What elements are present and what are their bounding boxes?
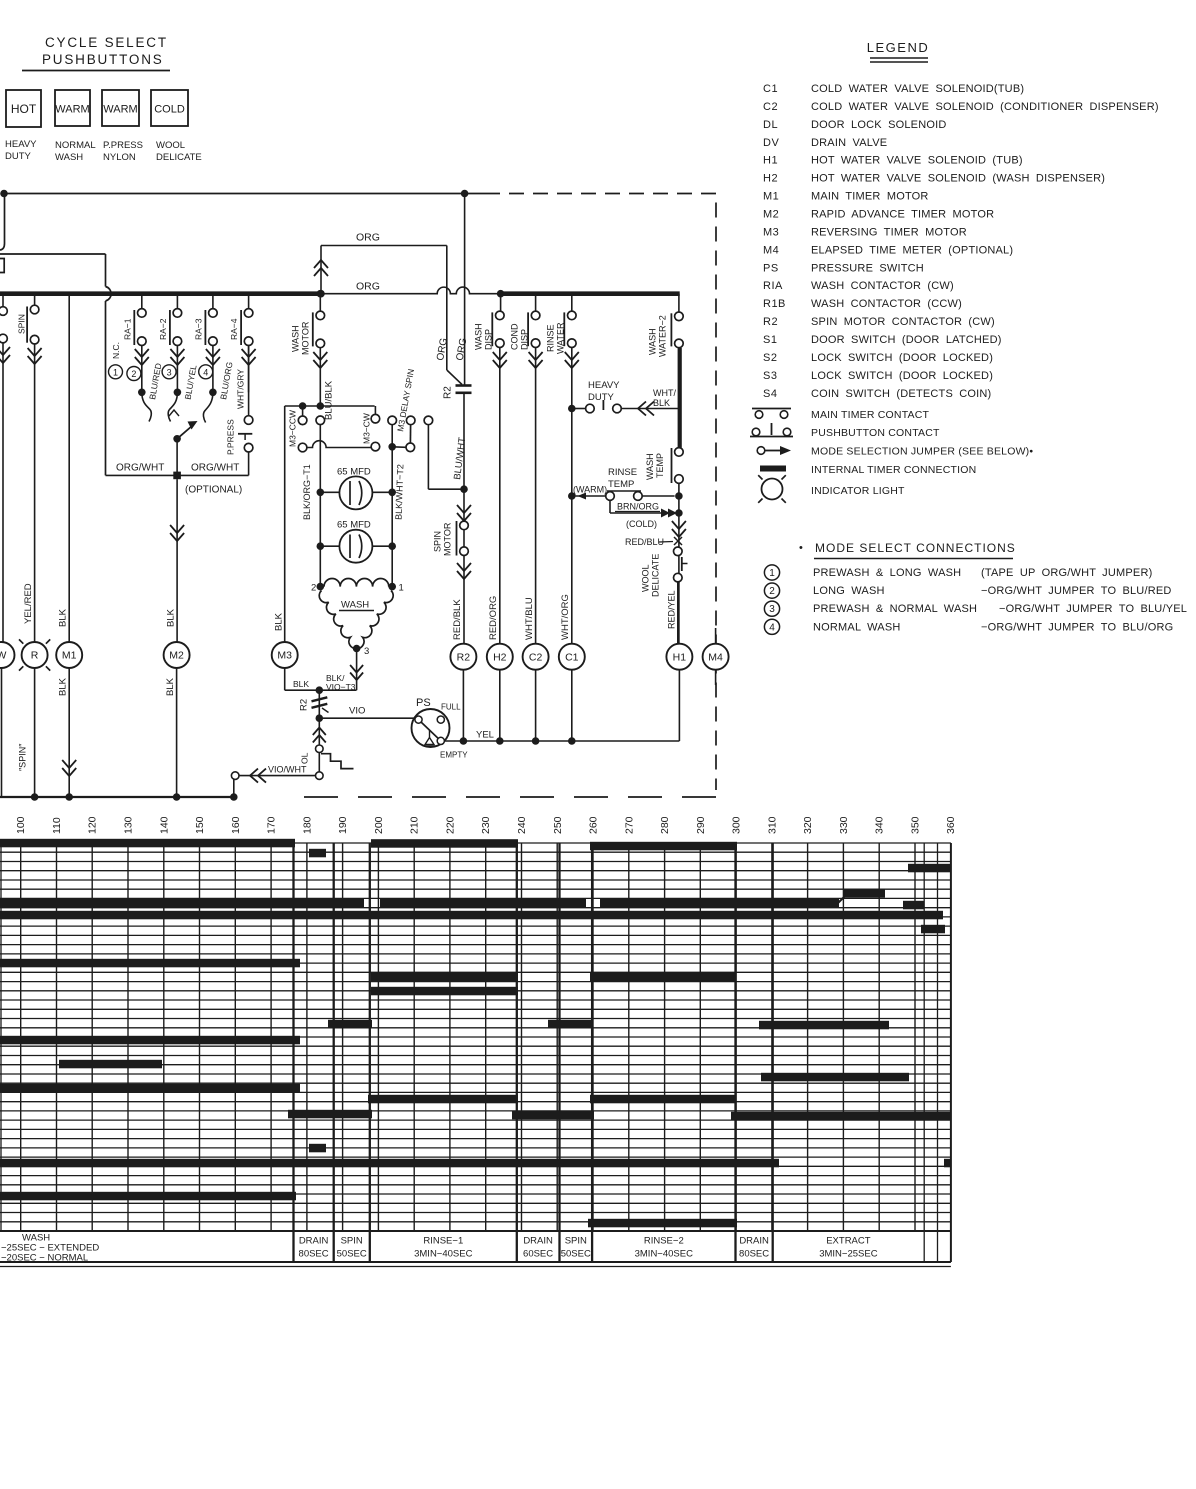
- svg-text:COIN SWITCH (DETECTS COIN): COIN SWITCH (DETECTS COIN): [811, 388, 991, 400]
- svg-text:180: 180: [301, 816, 313, 834]
- svg-text:170: 170: [266, 816, 278, 834]
- svg-text:M2: M2: [169, 650, 184, 662]
- svg-text:WASH: WASH: [648, 328, 658, 355]
- svg-text:WHT/BLU: WHT/BLU: [524, 597, 535, 640]
- svg-text:DUTY: DUTY: [5, 151, 32, 162]
- wire: pushbutton feed to ORG/WHT jumper rail: [0, 253, 106, 255]
- svg-text:DOOR SWITCH (DOOR LATCHED): DOOR SWITCH (DOOR LATCHED): [811, 334, 1002, 346]
- legend symbol: pushbutton contact: [752, 428, 760, 436]
- wire VIO/WHT to bottom rail: [316, 772, 324, 780]
- svg-text:DL: DL: [763, 119, 778, 131]
- svg-text:BLK: BLK: [274, 612, 285, 631]
- contact M3 DELAY SPIN: [388, 416, 397, 425]
- svg-text:330: 330: [838, 816, 850, 834]
- contact M3 delay spin drop wire: [424, 416, 433, 425]
- svg-text:TEMP: TEMP: [608, 479, 634, 490]
- svg-text:YEL: YEL: [476, 730, 494, 741]
- svg-text:3: 3: [769, 604, 775, 615]
- svg-text:130: 130: [123, 816, 135, 834]
- svg-text:60SEC: 60SEC: [523, 1249, 553, 1260]
- svg-text:COLD: COLD: [154, 104, 185, 116]
- svg-text:RA−3: RA−3: [193, 318, 203, 340]
- svg-text:•: •: [799, 542, 803, 554]
- svg-text:R: R: [31, 650, 39, 662]
- svg-text:150: 150: [194, 816, 206, 834]
- svg-text:EMPTY: EMPTY: [440, 751, 468, 760]
- pushbutton HOT (HEAVY DUTY): [6, 90, 41, 127]
- svg-text:WASH CONTACTOR (CW): WASH CONTACTOR (CW): [811, 280, 954, 292]
- svg-text:WASH: WASH: [474, 323, 484, 350]
- svg-text:SPIN: SPIN: [341, 1236, 363, 1247]
- svg-text:WASH: WASH: [341, 600, 369, 611]
- chart section boundary lines: [292, 843, 294, 1262]
- legend symbol: internal timer connection: [760, 466, 786, 472]
- svg-text:DRAIN: DRAIN: [739, 1236, 769, 1247]
- svg-text:4: 4: [203, 367, 208, 377]
- svg-text:RINSE−2: RINSE−2: [644, 1236, 684, 1247]
- wire + contact: wash water-2 / H1 branch: [678, 294, 680, 312]
- svg-text:MOTOR: MOTOR: [443, 522, 453, 556]
- svg-text:M3: M3: [763, 226, 779, 238]
- svg-text:M3−CW: M3−CW: [362, 413, 372, 444]
- svg-text:DELICATE: DELICATE: [651, 554, 661, 597]
- svg-text:−20SEC − NORMAL: −20SEC − NORMAL: [1, 1253, 88, 1264]
- svg-text:WASH: WASH: [645, 453, 655, 480]
- svg-text:350: 350: [910, 816, 922, 834]
- svg-text:VIO/WHT: VIO/WHT: [268, 765, 307, 775]
- svg-text:NORMAL WASH: NORMAL WASH: [813, 621, 901, 633]
- wire + contact: wash dispenser H2 branch: [500, 294, 502, 311]
- solenoid H2: [487, 644, 513, 670]
- svg-text:RED/BLK: RED/BLK: [452, 599, 463, 640]
- contact: wash temp: [675, 448, 684, 457]
- svg-text:320: 320: [802, 816, 814, 834]
- svg-text:H1: H1: [763, 155, 778, 167]
- svg-text:200: 200: [373, 816, 385, 834]
- wire ORG/WHT jumper rail: [106, 474, 249, 476]
- svg-text:BLK: BLK: [58, 677, 69, 696]
- svg-text:NYLON: NYLON: [103, 152, 136, 163]
- svg-text:INTERNAL TIMER CONNECTION: INTERNAL TIMER CONNECTION: [811, 464, 976, 476]
- svg-text:2: 2: [131, 369, 136, 379]
- wire + contact: wash motor branch: [317, 290, 325, 298]
- svg-text:M4: M4: [763, 244, 779, 256]
- contact M3-CW: [374, 406, 376, 414]
- svg-text:290: 290: [695, 816, 707, 834]
- pushbutton contact bracket (cut off at page edge): [0, 259, 4, 273]
- svg-text:P.PRESS: P.PRESS: [226, 419, 236, 455]
- diagonal step connector: [838, 896, 845, 903]
- svg-text:(COLD): (COLD): [626, 519, 657, 529]
- svg-text:HEAVY: HEAVY: [588, 380, 620, 391]
- svg-text:EXTRACT: EXTRACT: [826, 1236, 871, 1247]
- svg-text:100: 100: [15, 816, 27, 834]
- svg-text:M3: M3: [277, 650, 292, 662]
- wire between reversing contacts with hop: [307, 441, 371, 448]
- svg-text:280: 280: [659, 816, 671, 834]
- circled mode numbers: [109, 365, 123, 379]
- svg-text:COLD WATER VALVE SOLENOID (CON: COLD WATER VALVE SOLENOID (CONDITIONER D…: [811, 101, 1159, 113]
- svg-text:300: 300: [731, 816, 743, 834]
- wire: top horizontal supply line: [4, 193, 500, 195]
- svg-text:260: 260: [588, 816, 600, 834]
- svg-text:TEMP: TEMP: [655, 453, 665, 478]
- svg-text:M1: M1: [62, 650, 77, 662]
- wire BLU/WHT: [463, 393, 465, 644]
- dashed timer boundary border: [509, 194, 716, 791]
- svg-text:310: 310: [766, 816, 778, 834]
- contact RA−4: [248, 294, 250, 309]
- svg-text:HOT: HOT: [11, 102, 37, 116]
- svg-text:BRN/ORG: BRN/ORG: [617, 502, 659, 512]
- wash motor winding (WASH): [317, 583, 325, 591]
- svg-text:N.C.: N.C.: [111, 342, 121, 359]
- svg-text:S4: S4: [763, 388, 777, 400]
- svg-text:W: W: [0, 650, 7, 662]
- svg-text:MODE SELECTION JUMPER (SEE BEL: MODE SELECTION JUMPER (SEE BELOW)•: [811, 446, 1033, 458]
- legend symbol: indicator light: [762, 479, 783, 500]
- svg-text:4: 4: [769, 622, 775, 633]
- svg-text:3MIN−40SEC: 3MIN−40SEC: [414, 1249, 472, 1260]
- svg-text:YEL/RED: YEL/RED: [23, 583, 34, 624]
- svg-text:−ORG/WHT JUMPER TO BLU/RED: −ORG/WHT JUMPER TO BLU/RED: [981, 585, 1172, 597]
- svg-text:CYCLE SELECT: CYCLE SELECT: [45, 35, 168, 50]
- svg-text:−ORG/WHT JUMPER TO BLU/ORG: −ORG/WHT JUMPER TO BLU/ORG: [981, 621, 1173, 633]
- contact R2 (lower, capacitor-style bars): [318, 690, 320, 718]
- svg-text:ELAPSED TIME METER (OPTIONAL): ELAPSED TIME METER (OPTIONAL): [811, 244, 1013, 256]
- svg-text:″SPIN″: ″SPIN″: [18, 743, 28, 771]
- chart grid horizontal lines: [0, 842, 951, 844]
- svg-text:120: 120: [87, 816, 99, 834]
- svg-text:R2: R2: [457, 651, 471, 663]
- svg-text:RINSE: RINSE: [608, 467, 637, 478]
- svg-text:BLK: BLK: [165, 677, 176, 696]
- svg-text:MODE SELECT CONNECTIONS: MODE SELECT CONNECTIONS: [815, 541, 1016, 555]
- mode select item 1: [764, 565, 779, 580]
- svg-text:S2: S2: [763, 352, 777, 364]
- svg-text:BLK: BLK: [653, 398, 670, 408]
- svg-text:DISP: DISP: [484, 329, 494, 350]
- solenoid H1: [666, 644, 692, 670]
- contactor coil R2: [450, 644, 476, 670]
- main bus (thick, right): [501, 291, 680, 296]
- svg-text:VIO: VIO: [349, 706, 365, 717]
- wire: W contactor branch (cut at edge): [2, 294, 4, 307]
- contact SPIN + indicator R: [34, 294, 36, 306]
- legend symbol: main timer contact: [752, 408, 791, 410]
- svg-text:WOOL: WOOL: [156, 140, 185, 151]
- svg-text:S3: S3: [763, 370, 777, 382]
- svg-text:C1: C1: [565, 651, 579, 663]
- svg-text:ORG/WHT: ORG/WHT: [191, 463, 239, 474]
- svg-text:BLK: BLK: [166, 608, 177, 627]
- svg-text:M3−CCW: M3−CCW: [288, 410, 298, 447]
- rapid advance motor M2 branch: [176, 479, 178, 642]
- svg-text:WOOL: WOOL: [641, 564, 651, 592]
- svg-text:RAPID ADVANCE TIMER MOTOR: RAPID ADVANCE TIMER MOTOR: [811, 209, 994, 221]
- svg-text:DRAIN VALVE: DRAIN VALVE: [811, 137, 887, 149]
- svg-text:WASH CONTACTOR (CCW): WASH CONTACTOR (CCW): [811, 298, 962, 310]
- jumper BRN/ORG (COLD): [609, 500, 611, 513]
- svg-text:WHT/GRY: WHT/GRY: [236, 369, 246, 409]
- svg-text:(WARM): (WARM): [573, 485, 607, 495]
- svg-text:ORG/WHT: ORG/WHT: [116, 463, 164, 474]
- svg-text:WHT/: WHT/: [653, 388, 676, 398]
- wire YEL return line: [444, 740, 679, 742]
- mode select item 2: [764, 583, 779, 598]
- svg-text:H1: H1: [673, 651, 687, 663]
- svg-text:PREWASH & NORMAL WASH: PREWASH & NORMAL WASH: [813, 603, 977, 615]
- svg-text:PUSHBUTTONS: PUSHBUTTONS: [42, 52, 164, 67]
- svg-text:HOT WATER VALVE SOLENOID (TUB): HOT WATER VALVE SOLENOID (TUB): [811, 155, 1023, 167]
- svg-text:DRAIN: DRAIN: [523, 1236, 553, 1247]
- chart grid vertical lines: [20, 843, 22, 1231]
- svg-text:BLK/WHT−T2: BLK/WHT−T2: [394, 464, 406, 520]
- svg-text:WHT/ORG: WHT/ORG: [560, 594, 571, 640]
- svg-text:80SEC: 80SEC: [299, 1249, 329, 1260]
- svg-text:230: 230: [480, 816, 492, 834]
- svg-text:50SEC: 50SEC: [337, 1249, 367, 1260]
- solenoid C2: [523, 644, 549, 670]
- contact: spin motor (timer contact on R2 coil wire): [457, 505, 471, 521]
- svg-text:COND: COND: [509, 323, 519, 350]
- svg-text:DISP: DISP: [519, 329, 529, 350]
- center wire from common contact down to capacitors: [316, 416, 325, 425]
- svg-text:LEGEND: LEGEND: [867, 40, 929, 55]
- svg-text:220: 220: [444, 816, 456, 834]
- svg-text:R2: R2: [443, 386, 454, 399]
- timer motor M1 branch: [68, 294, 70, 642]
- svg-text:RED/YEL: RED/YEL: [667, 590, 677, 629]
- jumper hook RA-3: [203, 392, 212, 422]
- svg-text:WARM: WARM: [55, 104, 89, 116]
- pushbutton COLD (WOOL DELICATE): [151, 90, 188, 126]
- svg-text:3MIN−40SEC: 3MIN−40SEC: [635, 1249, 693, 1260]
- wire: left edge drop from supply line: [0, 194, 5, 251]
- wire BLK/ORG-T1: [391, 447, 393, 587]
- pushbutton WARM (NORMAL WASH): [55, 90, 90, 126]
- svg-text:WATER−2: WATER−2: [658, 315, 668, 357]
- svg-text:P.PRESS: P.PRESS: [103, 140, 143, 151]
- wash motor reversing network M3-CCW / M3-CW: [285, 405, 375, 407]
- reversing motor M3: [272, 642, 298, 668]
- svg-text:3: 3: [167, 367, 172, 377]
- svg-text:C2: C2: [529, 651, 543, 663]
- jumper hook RA-2: [168, 392, 177, 421]
- svg-text:R2: R2: [763, 316, 778, 328]
- svg-text:(OPTIONAL): (OPTIONAL): [185, 485, 242, 496]
- mode select item 4: [764, 619, 779, 634]
- svg-text:SPIN: SPIN: [565, 1236, 587, 1247]
- svg-text:160: 160: [230, 816, 242, 834]
- svg-text:S1: S1: [763, 334, 777, 346]
- svg-text:65 MFD: 65 MFD: [337, 520, 371, 531]
- svg-text:BLU/BLK: BLU/BLK: [324, 380, 335, 420]
- svg-text:M2: M2: [763, 209, 779, 221]
- svg-text:PUSHBUTTON CONTACT: PUSHBUTTON CONTACT: [811, 427, 940, 439]
- pushbutton contact: WOOL DELICATE: [674, 547, 683, 556]
- svg-text:HEAVY: HEAVY: [5, 139, 37, 150]
- svg-text:M1: M1: [763, 191, 779, 203]
- svg-text:COLD WATER VALVE SOLENOID(TUB): COLD WATER VALVE SOLENOID(TUB): [811, 83, 1024, 95]
- svg-text:210: 210: [409, 816, 421, 834]
- svg-text:80SEC: 80SEC: [739, 1249, 769, 1260]
- pushbutton contact: HEAVY DUTY branch: [568, 405, 576, 413]
- svg-text:DV: DV: [763, 137, 779, 149]
- svg-text:2: 2: [311, 583, 316, 594]
- wire from winding tap 3: [356, 649, 358, 691]
- svg-text:LOCK SWITCH (DOOR LOCKED): LOCK SWITCH (DOOR LOCKED): [811, 370, 993, 382]
- main bus (thick, left): [0, 291, 318, 296]
- svg-text:RIA: RIA: [763, 280, 783, 292]
- wire ORG from top line to R2 contact: [464, 194, 466, 386]
- svg-text:C2: C2: [763, 101, 778, 113]
- svg-text:M4: M4: [708, 651, 723, 663]
- main bus thin middle with hops over ORG wires: [318, 287, 501, 294]
- chart phase label boxes: [0, 1261, 951, 1263]
- svg-text:PS: PS: [416, 697, 431, 709]
- svg-text:LONG WASH: LONG WASH: [813, 585, 885, 597]
- svg-text:R1B: R1B: [763, 298, 786, 310]
- contact RA−1: [141, 294, 143, 309]
- svg-text:110: 110: [51, 817, 63, 834]
- svg-text:DOOR LOCK SOLENOID: DOOR LOCK SOLENOID: [811, 119, 947, 131]
- svg-text:REVERSING TIMER MOTOR: REVERSING TIMER MOTOR: [811, 226, 967, 238]
- contact R2 (spin contactor contact, capacitor-style bars): [447, 370, 462, 385]
- svg-text:PRESSURE SWITCH: PRESSURE SWITCH: [811, 262, 924, 274]
- svg-text:MAIN TIMER MOTOR: MAIN TIMER MOTOR: [811, 191, 929, 203]
- svg-text:DRAIN: DRAIN: [299, 1236, 329, 1247]
- svg-text:R2: R2: [299, 699, 310, 711]
- svg-text:−ORG/WHT JUMPER TO BLU/YEL: −ORG/WHT JUMPER TO BLU/YEL: [999, 603, 1187, 615]
- svg-text:DELICATE: DELICATE: [156, 152, 202, 163]
- svg-text:270: 270: [623, 816, 635, 834]
- svg-text:RINSE−1: RINSE−1: [423, 1236, 463, 1247]
- svg-text:250: 250: [552, 816, 564, 834]
- overload protector OL: [318, 718, 320, 745]
- svg-text:RINSE: RINSE: [546, 324, 556, 352]
- svg-text:1: 1: [113, 367, 118, 377]
- solenoid C1: [559, 644, 585, 670]
- svg-text:LOCK SWITCH (DOOR LOCKED): LOCK SWITCH (DOOR LOCKED): [811, 352, 993, 364]
- svg-text:SPIN: SPIN: [17, 314, 27, 334]
- svg-text:(TAPE UP ORG/WHT JUMPER): (TAPE UP ORG/WHT JUMPER): [981, 567, 1152, 579]
- svg-text:INDICATOR LIGHT: INDICATOR LIGHT: [811, 485, 905, 497]
- mode selection jumper arrow: [173, 435, 181, 443]
- svg-text:RA−4: RA−4: [229, 318, 239, 340]
- svg-text:PS: PS: [763, 262, 779, 274]
- svg-text:190: 190: [337, 816, 349, 834]
- bottom return rail: [0, 796, 234, 798]
- svg-text:MAIN TIMER CONTACT: MAIN TIMER CONTACT: [811, 409, 930, 421]
- svg-text:3: 3: [364, 646, 369, 657]
- svg-text:2: 2: [769, 586, 775, 597]
- mode select item 3: [764, 601, 779, 616]
- meter M4 (optional): [715, 628, 717, 644]
- svg-text:H2: H2: [493, 651, 507, 663]
- legend symbol: mode selection jumper: [757, 447, 765, 455]
- indicator light R: [22, 642, 48, 668]
- svg-text:340: 340: [874, 816, 886, 834]
- svg-text:SPIN MOTOR CONTACTOR (CW): SPIN MOTOR CONTACTOR (CW): [811, 316, 995, 328]
- svg-text:140: 140: [158, 816, 170, 834]
- svg-text:WASH: WASH: [55, 152, 83, 163]
- svg-text:MOTOR: MOTOR: [301, 321, 311, 355]
- contact RA−2: [176, 294, 178, 309]
- svg-text:WATER: WATER: [556, 322, 566, 354]
- svg-text:DUTY: DUTY: [588, 392, 615, 403]
- svg-text:WARM: WARM: [103, 104, 137, 116]
- svg-text:PREWASH & LONG WASH: PREWASH & LONG WASH: [813, 567, 961, 579]
- svg-text:H2: H2: [763, 173, 778, 185]
- svg-text:SPIN: SPIN: [433, 531, 443, 552]
- svg-text:RA−1: RA−1: [122, 318, 132, 340]
- svg-text:BLK: BLK: [58, 608, 69, 627]
- timer chart contact-closure bars: [0, 839, 295, 848]
- jumper hook RA-1 (n.c.): [142, 392, 152, 421]
- wire + contact: rinse water C1 branch: [571, 294, 573, 311]
- wire thick internal timer connection: [678, 348, 682, 448]
- svg-text:OL: OL: [300, 752, 310, 764]
- svg-text:RED/BLU: RED/BLU: [625, 537, 664, 547]
- pushbutton contact P.PRESS (RA-4): [248, 346, 250, 416]
- svg-text:HOT WATER VALVE SOLENOID (WASH: HOT WATER VALVE SOLENOID (WASH DISPENSER…: [811, 173, 1105, 185]
- svg-text:50SEC: 50SEC: [561, 1249, 591, 1260]
- svg-text:ORG: ORG: [356, 232, 380, 244]
- contact RA−3: [212, 294, 214, 309]
- svg-text:ORG: ORG: [356, 280, 380, 292]
- svg-text:360: 360: [945, 816, 957, 834]
- contact M3-CCW: [298, 416, 307, 425]
- svg-text:WASH: WASH: [291, 325, 301, 352]
- svg-text:1: 1: [769, 568, 775, 579]
- pushbutton WARM (P.PRESS NYLON): [102, 90, 139, 126]
- svg-text:C1: C1: [763, 83, 778, 95]
- svg-text:BLK/ORG−T1: BLK/ORG−T1: [302, 464, 312, 520]
- svg-text:240: 240: [516, 816, 528, 834]
- svg-text:RED/ORG: RED/ORG: [488, 596, 499, 640]
- svg-text:FULL: FULL: [441, 703, 461, 712]
- svg-text:RA−2: RA−2: [158, 318, 168, 340]
- wire + contact: conditioner dispenser C2 branch: [535, 294, 537, 311]
- wire hop over main bus: [106, 287, 112, 302]
- svg-text:BLK: BLK: [293, 679, 309, 689]
- svg-text:1: 1: [399, 583, 404, 594]
- pressure switch PS: [412, 709, 450, 747]
- svg-text:NORMAL: NORMAL: [55, 140, 96, 151]
- svg-text:3MIN−25SEC: 3MIN−25SEC: [819, 1249, 877, 1260]
